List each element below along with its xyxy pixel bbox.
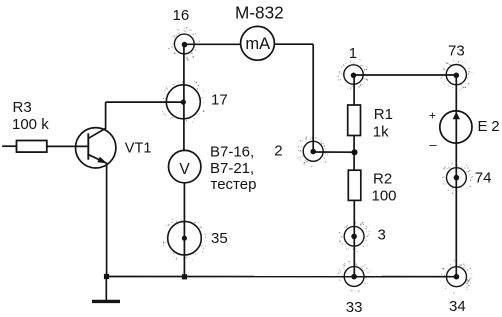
svg-text:17: 17 bbox=[211, 92, 228, 109]
svg-text:100 k: 100 k bbox=[12, 116, 49, 133]
svg-text:VT1: VT1 bbox=[125, 141, 152, 157]
svg-text:R1: R1 bbox=[374, 106, 393, 123]
svg-text:R2: R2 bbox=[373, 170, 392, 187]
svg-text:В7-16,: В7-16, bbox=[210, 144, 254, 161]
svg-text:тестер: тестер bbox=[211, 176, 257, 193]
svg-text:100: 100 bbox=[372, 187, 397, 204]
svg-text:74: 74 bbox=[475, 170, 492, 187]
svg-text:R3: R3 bbox=[13, 99, 32, 116]
svg-text:V: V bbox=[179, 161, 190, 178]
svg-text:16: 16 bbox=[173, 7, 190, 24]
svg-text:2: 2 bbox=[274, 142, 282, 159]
svg-text:1: 1 bbox=[349, 45, 357, 62]
svg-text:3: 3 bbox=[378, 227, 386, 244]
svg-text:73: 73 bbox=[448, 43, 465, 60]
svg-text:+: + bbox=[429, 109, 436, 123]
svg-text:mA: mA bbox=[245, 35, 270, 53]
svg-text:В7-21,: В7-21, bbox=[210, 160, 254, 177]
svg-text:33: 33 bbox=[346, 299, 363, 316]
svg-text:1k: 1k bbox=[373, 124, 389, 141]
svg-text:E2: E2 bbox=[478, 118, 502, 135]
svg-text:34: 34 bbox=[449, 298, 466, 315]
svg-text:–: – bbox=[429, 137, 437, 152]
svg-text:M-832: M-832 bbox=[235, 3, 284, 23]
svg-text:35: 35 bbox=[211, 230, 228, 247]
